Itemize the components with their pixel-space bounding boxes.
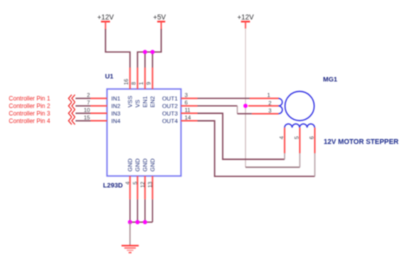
motor pin 4 stub	[284, 128, 286, 154]
wire OUT3 to motor pin 4	[198, 113, 285, 159]
op-amp U1 body (L293D driver IC)	[103, 74, 181, 190]
svg-text:Controller Pin 2: Controller Pin 2	[9, 104, 51, 110]
wire OUT1 to motor pin 1	[198, 97, 250, 99]
wire GND pin 12 down	[144, 199, 146, 222]
svg-text:1: 1	[139, 82, 145, 85]
wire OUT2 to motor pin 3	[237, 113, 252, 115]
pin stub OUT1	[181, 97, 198, 99]
motor pin 5 stub	[299, 128, 301, 154]
pin stub OUT4	[181, 120, 198, 122]
wire chevron to IN2	[76, 105, 91, 107]
svg-text:Controller Pin 4: Controller Pin 4	[9, 119, 51, 125]
svg-text:+5V: +5V	[153, 14, 166, 21]
wire chevron to IN3	[76, 112, 91, 114]
wire riser to motor pin 4	[284, 153, 286, 159]
pin stub VSS (16)	[129, 68, 131, 90]
power +12V (left)	[97, 14, 114, 29]
svg-text:5: 5	[295, 136, 301, 139]
wire chevron to IN1	[76, 97, 91, 99]
svg-text:2: 2	[268, 101, 271, 107]
wire +12V down to pin5 feed	[245, 106, 247, 167]
svg-text:6: 6	[185, 100, 188, 106]
svg-text:12: 12	[140, 182, 146, 188]
motor MG1	[248, 77, 337, 154]
svg-text:4: 4	[125, 181, 131, 184]
pin stub GND 12	[144, 176, 146, 199]
svg-text:MG1: MG1	[323, 77, 338, 84]
pin stub GND 5	[137, 176, 139, 199]
svg-text:OUT4: OUT4	[162, 119, 178, 125]
junction dot GND bus 1	[128, 220, 132, 224]
svg-text:13: 13	[148, 182, 154, 188]
svg-text:3: 3	[268, 109, 271, 115]
wire GND bus to ground	[129, 222, 131, 245]
junction dot GND bus 3	[143, 220, 147, 224]
motor left winding arcs	[279, 98, 283, 113]
wire GND pin 13 down	[152, 199, 154, 222]
pin stub EN2 (9)	[152, 68, 154, 90]
pin stub EN1 (1)	[144, 68, 146, 90]
wire OUT4 to motor pin 6	[198, 121, 315, 177]
svg-text:5: 5	[133, 181, 139, 184]
motor pin 1 stub	[250, 97, 279, 99]
svg-text:VSS: VSS	[128, 96, 134, 108]
wire OUT2 jog down	[236, 106, 238, 114]
wire +12V to VSS pin	[106, 29, 131, 68]
motor rotor circle	[285, 91, 314, 120]
svg-text:GND: GND	[143, 159, 149, 172]
connector chevron Controller Pin 2	[69, 102, 76, 109]
wire +12V feed across to pin5 riser	[246, 166, 300, 168]
wire +5V bus to VS/EN1/EN2 pins	[138, 29, 162, 68]
svg-text:OUT1: OUT1	[162, 97, 178, 103]
svg-text:GND: GND	[136, 159, 142, 172]
svg-text:GND: GND	[151, 159, 157, 172]
svg-text:12V MOTOR STEPPER: 12V MOTOR STEPPER	[324, 139, 399, 146]
svg-text:EN1: EN1	[143, 96, 149, 107]
ground	[122, 246, 139, 253]
svg-text:+12V: +12V	[97, 14, 114, 21]
pin stub OUT3	[181, 112, 198, 114]
motor bottom winding	[285, 124, 315, 128]
svg-text:1: 1	[267, 93, 270, 99]
junction dot EN2 bus	[150, 50, 154, 54]
svg-text:EN2: EN2	[151, 96, 157, 107]
wire chevron to IN4	[76, 120, 91, 122]
pin stub GND 13	[152, 176, 154, 199]
wire GND bus	[130, 221, 153, 223]
wire +12V vertical to motor pin2 junction	[245, 29, 247, 106]
svg-text:+12V: +12V	[237, 14, 254, 21]
svg-text:Controller Pin 1: Controller Pin 1	[9, 96, 51, 102]
svg-text:6: 6	[310, 136, 316, 139]
svg-text:U1: U1	[105, 74, 114, 81]
svg-text:IN1: IN1	[111, 97, 120, 103]
junction dot motor pin2 / +12V	[243, 104, 247, 108]
svg-text:3: 3	[185, 93, 188, 99]
motor pin 3 stub	[252, 113, 279, 115]
svg-text:Controller Pin 3: Controller Pin 3	[9, 111, 51, 117]
svg-text:IN4: IN4	[111, 119, 121, 125]
svg-text:OUT2: OUT2	[162, 104, 178, 110]
pin stub IN4	[91, 120, 108, 122]
wire riser to motor pin 6	[314, 153, 316, 176]
pin stub VS (8)	[137, 68, 139, 90]
svg-text:GND: GND	[128, 159, 134, 172]
svg-text:4: 4	[279, 136, 285, 139]
svg-text:9: 9	[147, 82, 153, 85]
wire GND pin 5 down	[137, 199, 139, 222]
pin stub IN1	[91, 97, 108, 99]
svg-text:14: 14	[185, 115, 191, 121]
power +5V	[153, 14, 166, 29]
connector chevron Controller Pin 1	[69, 95, 76, 102]
wire OUT2 run	[198, 105, 238, 107]
power +12V (motor)	[237, 14, 254, 28]
svg-text:IN2: IN2	[111, 104, 120, 110]
pin stub IN2	[91, 105, 108, 107]
wire riser to motor pin 5	[299, 153, 301, 167]
pin stub IN3	[91, 112, 108, 114]
svg-text:VS: VS	[136, 100, 142, 108]
svg-text:8: 8	[132, 82, 138, 85]
connector chevron Controller Pin 4	[69, 117, 76, 124]
junction dot EN1 bus	[143, 50, 147, 54]
svg-text:11: 11	[185, 108, 191, 114]
motor pin 2 stub	[248, 105, 278, 107]
pin stub OUT2	[181, 105, 198, 107]
connector chevron Controller Pin 3	[69, 110, 76, 117]
svg-text:OUT3: OUT3	[162, 112, 178, 118]
pin stub GND 4	[129, 176, 131, 199]
svg-text:16: 16	[124, 79, 130, 85]
wire GND pin 4 down	[129, 199, 131, 222]
junction dot GND bus 2	[135, 220, 139, 224]
svg-text:IN3: IN3	[111, 112, 121, 118]
svg-text:L293D: L293D	[103, 182, 123, 189]
motor pin 6 stub	[314, 128, 316, 154]
